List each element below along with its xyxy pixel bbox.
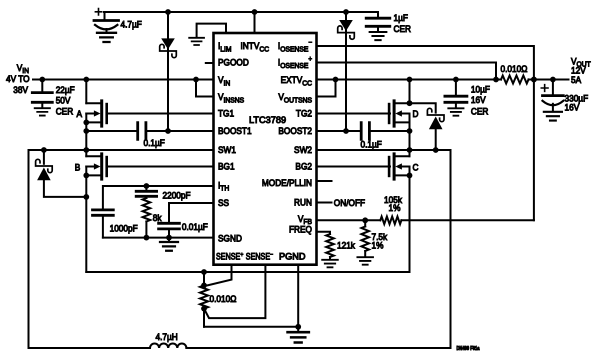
capacitor C6 330uF output bulk	[541, 80, 563, 112]
svg-text:0.1µF: 0.1µF	[144, 138, 165, 149]
label B	[75, 162, 81, 173]
svg-text:ITH: ITH	[218, 180, 229, 193]
resistor R3 8k	[143, 198, 151, 238]
node dot VOUT rail VOUTSNS	[333, 77, 339, 83]
resistor R5 7.5k feedback bottom	[361, 220, 369, 256]
op-amp U1 LTC3789 controller IC body	[214, 33, 317, 265]
svg-text:50V: 50V	[56, 95, 71, 106]
label VIN	[17, 63, 29, 76]
label VOUT	[571, 56, 591, 69]
label D	[413, 109, 419, 120]
label ON/OFF	[334, 198, 365, 209]
wire VINSNS to VIN	[196, 80, 214, 97]
node dot VIN rail at QA drain	[83, 77, 89, 83]
node dot SGND at C9	[166, 235, 172, 241]
wire PGOOD stub	[206, 62, 214, 64]
node dot QA source BOOST1 cap	[83, 128, 89, 134]
label BG1	[218, 161, 235, 172]
label IOSENSE+	[278, 56, 312, 70]
wire QD source bus	[409, 114, 411, 151]
capacitor C4 0.1uF BOOST1	[86, 123, 213, 140]
label VINSNS	[218, 92, 244, 105]
svg-text:4.7µH: 4.7µH	[156, 332, 178, 343]
transistor QC switch C	[389, 154, 409, 179]
node dot QB source at D1 anode	[83, 194, 89, 200]
svg-text:121k: 121k	[337, 240, 356, 251]
label FREQ	[289, 224, 312, 235]
node dot VOUT rail at feedback	[531, 77, 537, 83]
wire SW2 to inductor right leg	[450, 150, 452, 348]
label 8k	[153, 213, 162, 224]
svg-text:5A: 5A	[571, 75, 581, 86]
label A	[77, 109, 83, 120]
label CER	[394, 24, 411, 35]
node dot BOOST1 at D3	[165, 128, 171, 134]
ground for R5	[357, 257, 373, 265]
label SENSE+	[216, 252, 244, 262]
svg-text:BOOST2: BOOST2	[278, 126, 312, 137]
label CER	[471, 106, 488, 117]
wire TG1 to QA gate	[107, 113, 214, 115]
label SS	[218, 198, 229, 209]
svg-text:1000pF: 1000pF	[110, 223, 138, 234]
label 0.1µF	[144, 138, 165, 149]
wire QB drain from SW1	[85, 150, 87, 156]
capacitor C7 2200pF	[136, 186, 156, 198]
svg-text:LTC3789: LTC3789	[249, 115, 286, 125]
transistor QD switch D	[389, 101, 409, 126]
ground for C3	[35, 108, 50, 115]
svg-text:FREQ: FREQ	[289, 224, 312, 235]
label 4.7µH	[156, 332, 178, 343]
label LTC3789	[249, 115, 286, 125]
svg-text:2200pF: 2200pF	[163, 190, 191, 201]
svg-text:0.010Ω: 0.010Ω	[501, 64, 528, 75]
svg-text:4V TO: 4V TO	[6, 74, 30, 85]
wire QC source down	[409, 167, 411, 176]
node dot VOUT rail before sense	[493, 77, 499, 83]
wire BG2 to QC gate	[317, 166, 391, 168]
wire IOSENSE+ to VOUT	[317, 63, 497, 80]
svg-text:8k: 8k	[153, 213, 162, 224]
wire SS	[169, 203, 214, 223]
capacitor C8 1000pF	[93, 210, 114, 238]
label SGND	[218, 233, 242, 244]
label C	[413, 162, 419, 173]
node dot VOUT rail at QD	[407, 77, 413, 83]
ground for C9	[160, 238, 178, 251]
wire MODE/PLLIN stub	[317, 180, 332, 182]
diode D4 INTVCC to BOOST2	[338, 12, 355, 131]
svg-text:SENSE+: SENSE+	[216, 252, 244, 262]
svg-text:0.1µF: 0.1µF	[361, 139, 382, 150]
transistor QA switch A	[86, 101, 106, 126]
label 5A	[571, 75, 581, 86]
svg-text:A: A	[77, 109, 83, 120]
resistor R4 105k feedback top	[380, 217, 401, 225]
capacitor C2 1uF CER	[366, 12, 390, 32]
node dot R2 top on ground return	[201, 269, 207, 275]
wire BG1 to QB gate	[107, 166, 214, 168]
label SW1	[218, 145, 236, 156]
svg-text:BG1: BG1	[218, 161, 235, 172]
svg-text:CER: CER	[56, 106, 73, 117]
svg-text:22µF: 22µF	[56, 85, 75, 96]
label PGND	[279, 252, 306, 262]
label TG1	[218, 108, 234, 119]
ground for C6	[544, 112, 562, 121]
label 12V	[571, 65, 586, 76]
ground for R6	[322, 260, 338, 268]
label MODE/PLLIN	[262, 177, 312, 188]
label SW2	[294, 145, 312, 156]
label 16V	[565, 102, 580, 113]
svg-text:RUN: RUN	[294, 197, 312, 208]
svg-text:1%: 1%	[389, 203, 401, 214]
wire RUN stub	[317, 202, 332, 204]
svg-text:SS: SS	[218, 198, 229, 209]
capacitor C9 0.01uF	[159, 223, 180, 237]
label BOOST2	[278, 126, 312, 137]
node dot VOUT rail after sense	[531, 77, 537, 83]
wire VIN input rail	[33, 79, 214, 81]
svg-text:16V: 16V	[565, 102, 580, 113]
label 0.010Ω	[501, 64, 528, 75]
ground for C2	[370, 32, 387, 40]
label ITH	[218, 180, 229, 193]
wire ITH	[103, 186, 214, 210]
label 1µF	[394, 13, 408, 24]
svg-text:MODE/PLLIN: MODE/PLLIN	[262, 177, 312, 188]
resistor R6 121k	[326, 234, 334, 259]
svg-text:1µF: 1µF	[394, 13, 408, 24]
svg-text:DN499 F01a: DN499 F01a	[457, 346, 480, 352]
wire VFB feedback	[317, 219, 534, 221]
node dot VIN rail at C3	[39, 77, 45, 83]
node dot SW1 at D1 cathode	[41, 147, 47, 153]
label CER	[56, 106, 73, 117]
wire SW2	[317, 149, 451, 151]
wire QD drain to VOUT rail	[409, 80, 411, 104]
svg-text:SENSE−: SENSE−	[246, 252, 274, 262]
node dot QB source stub	[83, 173, 89, 179]
wire SENSE- pin	[204, 265, 265, 318]
wire SW1 to inductor left leg	[28, 150, 30, 348]
wire INTVCC top rail	[104, 11, 378, 13]
label VFB	[298, 213, 312, 226]
svg-text:0.01µF: 0.01µF	[182, 222, 208, 233]
node dot INTVCC rail	[252, 9, 258, 15]
ground for ILIM	[189, 38, 204, 45]
label 4V TO	[6, 74, 30, 85]
figure tag DN499	[0, 0, 1, 1]
label BOOST1	[218, 126, 252, 137]
capacitor C10 0.1uF BOOST2	[317, 123, 410, 140]
node dot ITH at C7	[144, 183, 150, 189]
wire QA source bus	[85, 114, 87, 151]
diode D2 schottky across QD	[410, 103, 445, 150]
label 22µF	[56, 85, 75, 96]
label DN499 F01a	[457, 346, 480, 352]
capacitor C1 4.7uF INTVCC bypass	[94, 9, 119, 33]
wire SENSE+ pin	[204, 265, 232, 286]
diode D1 schottky across QB	[36, 150, 87, 197]
label EXTVCC	[281, 75, 312, 88]
node dot QC source stub	[407, 173, 413, 179]
label 1%	[372, 240, 384, 251]
label 2200pF	[163, 190, 191, 201]
svg-text:INTVCC: INTVCC	[241, 41, 270, 54]
wire power ground return B to C	[86, 175, 409, 272]
label 4.7µF	[121, 19, 142, 30]
wire QB source down	[85, 167, 87, 273]
node dot BOOST2 at D4	[343, 128, 349, 134]
svg-text:0.010Ω: 0.010Ω	[210, 294, 237, 305]
label 1%	[389, 203, 401, 214]
ground for PGND	[288, 327, 309, 343]
label VOUTSNS	[278, 92, 312, 105]
node dot VOUT rail at C5	[453, 77, 459, 83]
capacitor C5 10uF output	[445, 80, 467, 108]
svg-text:TG2: TG2	[296, 108, 312, 119]
svg-text:D: D	[413, 109, 419, 120]
inductor L1 4.7uH	[29, 343, 451, 348]
label 121k	[337, 240, 356, 251]
label SENSE−	[246, 252, 274, 262]
svg-text:BG2: BG2	[295, 161, 312, 172]
wire IOSENSE- to VOUT	[317, 46, 534, 220]
node dot R2 bottom SENSE-	[201, 306, 207, 312]
node dot INTVCC rail at D3	[165, 9, 171, 15]
node dot PGND	[295, 324, 301, 330]
svg-text:TG1: TG1	[218, 108, 234, 119]
svg-text:4.7µF: 4.7µF	[121, 19, 142, 30]
svg-text:CER: CER	[394, 24, 411, 35]
label 0.01µF	[182, 222, 208, 233]
wire sense ground link	[204, 326, 298, 328]
capacitor C3 22uF input	[32, 80, 52, 108]
label 16V	[471, 95, 486, 106]
resistor R1 0.010 ohm output sense	[501, 76, 529, 84]
label BG2	[295, 161, 312, 172]
wire SGND	[103, 237, 214, 239]
resistor R2 0.010 ohm current sense	[200, 272, 208, 327]
label IOSENSE−	[278, 39, 312, 53]
svg-text:IOSENSE−: IOSENSE−	[278, 39, 312, 53]
label 1000pF	[110, 223, 138, 234]
svg-text:38V: 38V	[13, 85, 28, 96]
node dot QD drain at D2	[407, 100, 413, 106]
label 0.1µF	[361, 139, 382, 150]
label 0.010Ω	[210, 294, 237, 305]
svg-text:PGND: PGND	[279, 252, 306, 262]
svg-text:B: B	[75, 162, 81, 173]
svg-text:SW2: SW2	[294, 145, 312, 156]
label PGOOD	[218, 57, 249, 68]
node dot VIN VINSNS junction	[193, 77, 199, 83]
svg-text:BOOST1: BOOST1	[218, 126, 252, 137]
diode D3 INTVCC to BOOST1	[160, 12, 177, 131]
svg-text:16V: 16V	[471, 95, 486, 106]
wire TG2 to QD gate	[317, 113, 391, 115]
wire INTVCC pin to rail	[254, 12, 256, 33]
wire FREQ to 121k	[317, 232, 331, 234]
node dot SW2 at QD QC bus	[407, 147, 413, 153]
transistor QB switch B	[86, 154, 106, 179]
label INTVCC	[241, 41, 270, 54]
node dot R2 top SENSE+	[201, 283, 207, 289]
svg-text:VOUTSNS: VOUTSNS	[278, 92, 312, 105]
node dot INTVCC rail at D4	[343, 9, 349, 15]
wire SW1	[29, 149, 214, 151]
wire QA drain to VIN rail	[85, 80, 87, 104]
label 50V	[56, 95, 71, 106]
node dot SW1 at QA QB bus	[83, 147, 89, 153]
node dot QA source stub	[83, 120, 89, 126]
wire PGND pin	[297, 265, 299, 327]
svg-text:VIN: VIN	[218, 75, 230, 88]
svg-text:CER: CER	[471, 106, 488, 117]
label 105k	[384, 195, 403, 206]
svg-text:ON/OFF: ON/OFF	[334, 198, 365, 209]
node dot VOUT rail at C6	[550, 77, 556, 83]
wire ILIM tie to ground	[197, 24, 226, 38]
ground for C1	[97, 33, 116, 42]
label 10µF	[471, 84, 490, 95]
wire EXTVCC VOUT rail	[317, 79, 569, 81]
svg-text:IOSENSE+: IOSENSE+	[278, 56, 312, 70]
svg-text:PGOOD: PGOOD	[218, 57, 249, 68]
node dot SW2 at D2 anode	[433, 147, 439, 153]
label 330µF	[565, 93, 589, 104]
svg-text:C: C	[413, 162, 419, 173]
node dot VFB divider	[362, 217, 368, 223]
svg-text:10µF: 10µF	[471, 84, 490, 95]
label VIN	[218, 75, 230, 88]
node dot SGND at 8k	[144, 235, 150, 241]
svg-text:SW1: SW1	[218, 145, 236, 156]
svg-text:ILIM: ILIM	[218, 41, 232, 54]
wire QC drain from SW2	[409, 150, 411, 156]
svg-text:SGND: SGND	[218, 233, 242, 244]
node dot QD source BOOST2 cap	[407, 128, 413, 134]
label RUN	[294, 197, 312, 208]
label ILIM	[218, 41, 232, 54]
svg-text:VINSNS: VINSNS	[218, 92, 244, 105]
label 38V	[13, 85, 28, 96]
svg-text:1%: 1%	[372, 240, 384, 251]
svg-text:EXTVCC: EXTVCC	[281, 75, 312, 88]
ground for C5	[448, 108, 463, 115]
wire VOUTSNS	[317, 80, 336, 97]
label 7.5k	[372, 232, 388, 243]
label TG2	[296, 108, 312, 119]
